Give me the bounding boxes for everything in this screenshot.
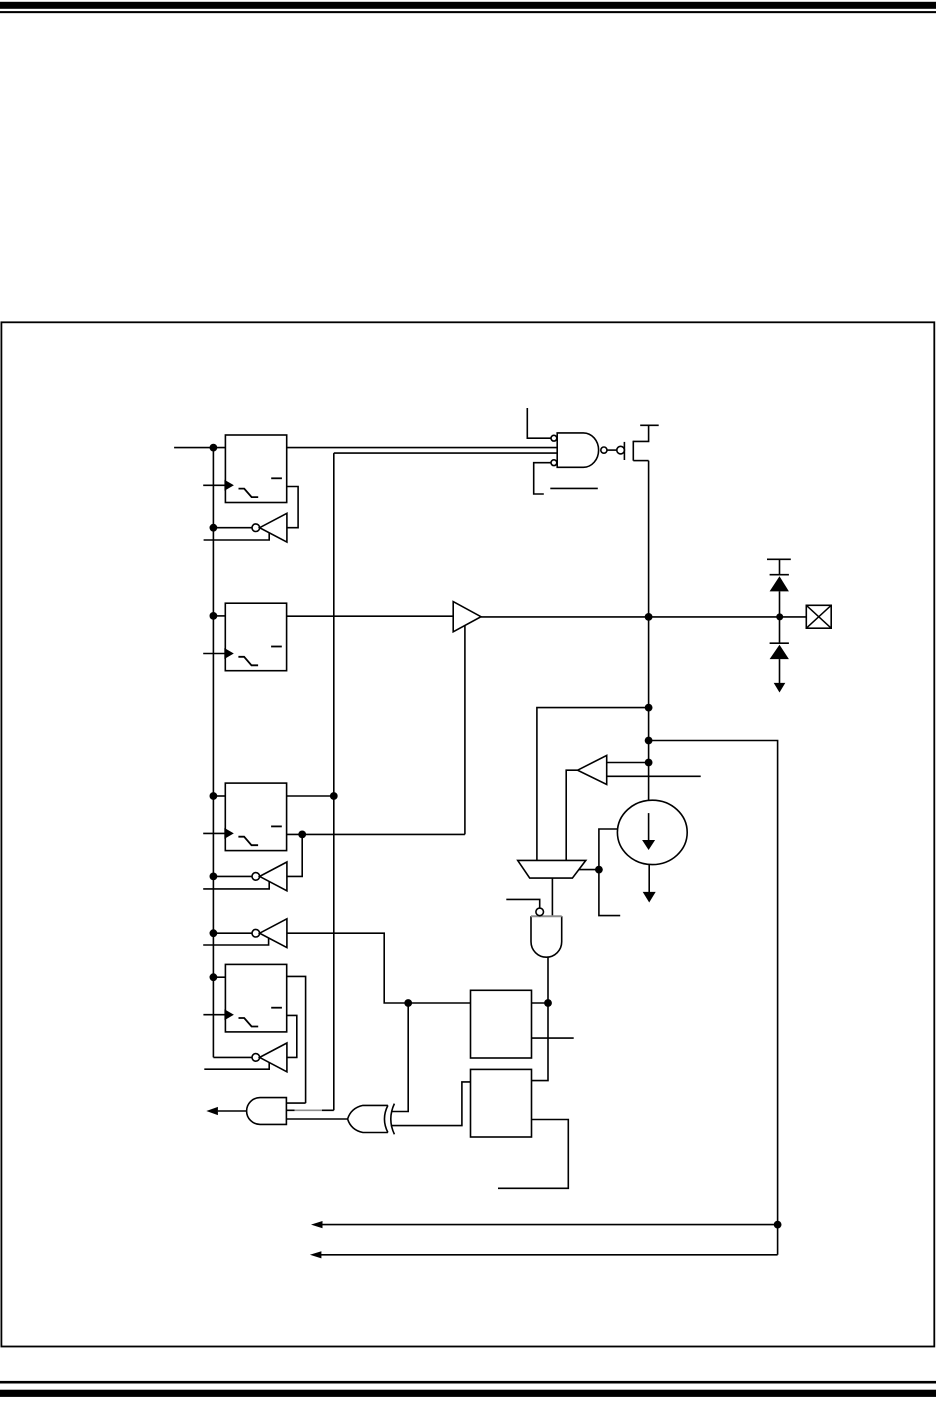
node dot pad net / buffer output <box>645 613 653 621</box>
figure frame <box>1 322 934 1346</box>
buffer U6 <box>453 602 481 632</box>
inverter U2c <box>252 919 287 948</box>
transistor Q1 gate bubble <box>617 446 625 454</box>
node dot on feedback vertical <box>774 1221 782 1229</box>
wire: feedback arrow 2 <box>321 1254 778 1256</box>
bus line 1 (left vertical net) <box>212 448 214 1058</box>
node dot comparator input tap <box>645 759 653 767</box>
bus line 2 (second vertical net) <box>333 453 335 1110</box>
inverter U2 <box>252 513 287 542</box>
wire: D1 anode to pad node <box>779 591 781 643</box>
one-shot block U4 <box>225 783 286 851</box>
one-shot block U1 <box>225 435 286 503</box>
diode D1 <box>770 576 789 591</box>
page header rule <box>0 11 936 13</box>
wire: U7 input 2 stub <box>607 775 701 777</box>
wire: VDD to D1 cathode <box>779 559 781 574</box>
wire: mux side output <box>579 869 599 871</box>
wire: block B right port to stub <box>498 1120 568 1189</box>
wire: block B left port down to XOR input 2 <box>391 1082 471 1126</box>
wire: U10 input 1 from block A input node <box>392 1003 409 1112</box>
U12 clock edge triangle <box>224 1009 234 1020</box>
wire: I1 output to ground arrow <box>648 864 650 893</box>
node dot on bus at U3 input <box>210 612 218 620</box>
wire: U4 output 2 across to buffer tap <box>287 833 465 835</box>
wire: U11 input B from bus line 2 <box>286 1109 333 1111</box>
transistor Q1 gate bar <box>623 442 625 460</box>
and gate U11 (leftward) body <box>247 1098 287 1125</box>
wire: U12 output 1 down to AND gate input A <box>287 976 306 1103</box>
U5 output bubble <box>601 447 607 453</box>
wire: pad net to U7 input 1 <box>607 762 649 764</box>
node dot on bus at U1 input <box>210 444 218 452</box>
wire: U12 output 2 to inverter U2d input <box>287 1015 297 1057</box>
wire: D2 anode to ground <box>779 659 781 684</box>
nand gate U5 body <box>557 433 598 467</box>
node dot U2b output on bus <box>210 873 218 881</box>
arrowhead feedback 1 <box>311 1221 323 1228</box>
U9 top edge (light) <box>531 915 562 917</box>
wire: stub below U2b <box>203 882 269 889</box>
mux U8 (trapezoid) <box>518 860 586 878</box>
page footer bar <box>0 1390 936 1397</box>
wire: U11 input A <box>286 1102 305 1104</box>
wire: U1 Q output to NAND U5 input 2 <box>287 447 558 449</box>
wire: block A output <box>532 1002 549 1004</box>
node dot at bus line 2 junction <box>330 792 338 800</box>
U1 clock edge triangle <box>224 480 234 491</box>
nand gate U9 (downward) body <box>531 916 562 957</box>
page header bar <box>0 2 936 9</box>
wire: feedback arrow 1 <box>322 1224 778 1226</box>
node dot on bus at U4 input <box>210 792 218 800</box>
wire: mux bottom port to NAND U9 <box>551 878 553 916</box>
ground arrow below D2 <box>774 683 786 693</box>
wire: bus to one-shot U12 input <box>213 976 225 978</box>
wire: U2c output to bus <box>213 932 252 934</box>
U1 clock stub wire <box>203 484 225 486</box>
wire: pad net branch to feedback vertical <box>649 741 778 1255</box>
wire: bus line 2 to U5 input 3 <box>334 452 557 454</box>
wire: pad node vertical net <box>648 461 650 801</box>
diode D2 cathode bar <box>770 642 789 644</box>
wire: U1 feedback to inverter U2 input <box>287 487 298 528</box>
wire: U9 input 1 stub <box>506 899 539 908</box>
U9 input 1 bubble <box>536 908 544 916</box>
page footer rule <box>0 1381 936 1384</box>
U11 output arrowhead <box>206 1107 218 1115</box>
VDD rail symbol above Q1 <box>640 424 659 426</box>
node dot on block A input net <box>404 999 412 1007</box>
node dot U2 output on bus <box>210 524 218 532</box>
wire: U5 output to Q1 gate <box>607 449 617 451</box>
diode D2 <box>770 645 789 659</box>
node dot mux output / I1 control <box>595 866 603 874</box>
wire: stub below U2d <box>204 1063 269 1070</box>
wire: U5 input 4 stub <box>534 463 551 494</box>
wire: U2b output to bus <box>213 875 252 877</box>
inverter U2b <box>252 862 287 891</box>
current source I1 <box>617 800 687 864</box>
wire: bus to one-shot U3 input <box>213 615 225 617</box>
U5 input 1 bubble <box>551 435 557 441</box>
wire: U7 output down to mux input 2 <box>566 770 577 860</box>
wire: U9 output down to delay block B <box>532 957 549 1080</box>
U4 clock stub wire <box>203 832 225 834</box>
wire: block A side stub <box>532 1037 574 1039</box>
wire: input net to one-shot U1 <box>174 447 225 449</box>
wire: U2 output to bus <box>213 527 252 529</box>
U4 clock edge triangle <box>224 828 234 839</box>
wire: buffer lower-edge tap down to U4 second output <box>464 625 466 834</box>
wire: buffer U6 output to pad node <box>481 616 806 618</box>
comparator U7 <box>578 755 607 784</box>
transistor Q1 drain lead <box>633 460 648 462</box>
wire: U10 output to AND U11 input C <box>286 1118 347 1120</box>
wire: pad net branch to mux input 1 <box>537 708 649 861</box>
delay block A <box>471 990 532 1058</box>
diode D1 cathode bar <box>770 574 789 576</box>
delay block B <box>471 1069 532 1137</box>
wire: U11 input B light segment <box>295 1109 323 1111</box>
node dot on bus at U12 input <box>210 973 218 981</box>
node dot on U4 output 2 <box>298 831 306 839</box>
wire: U4 output 1 to bus line 2 <box>287 795 334 797</box>
U10 input arc 1 <box>384 1105 387 1132</box>
node dot pad net branch 2 <box>645 737 653 745</box>
wire: U2c input node to delay block A input <box>287 933 471 1003</box>
wire: branch down to inverter U2b input <box>287 834 302 876</box>
node dot U9 output at block A output <box>544 999 552 1007</box>
wire: stub below U2c <box>203 938 268 945</box>
wire: stub below U2 <box>204 533 270 540</box>
U10 input arc 2 <box>391 1104 395 1135</box>
node dot at pad <box>776 613 783 620</box>
inverter U2d <box>252 1043 287 1072</box>
U3 clock edge triangle <box>224 648 234 659</box>
xor gate U10 body <box>348 1105 388 1132</box>
signal name overbar <box>550 487 598 489</box>
U5 input 4 bubble <box>551 460 557 466</box>
wire: bus to one-shot U4 input <box>213 795 225 797</box>
VDD rail symbol above clamp diode D1 <box>767 558 791 560</box>
wire: U2d output to bus bottom <box>213 1056 252 1058</box>
pad symbol (crossed square) <box>806 605 831 628</box>
transistor Q1 source lead <box>633 425 648 441</box>
arrowhead feedback 2 <box>310 1251 322 1258</box>
U3 clock stub wire <box>203 653 225 655</box>
wire: I1 control from mux output node <box>599 829 620 916</box>
transistor Q1 channel bar <box>632 441 634 461</box>
U12 clock stub wire <box>203 1014 225 1016</box>
wire: U3 output to buffer U6 <box>287 615 454 617</box>
wire: U11 output <box>218 1110 247 1112</box>
one-shot block U12 <box>225 964 286 1032</box>
wire: U5 input 1 stub <box>527 408 551 438</box>
one-shot block U3 <box>225 603 286 671</box>
node dot pad net branch 1 <box>645 704 653 712</box>
ground arrow below I1 <box>643 892 656 903</box>
node dot U2c output on bus <box>210 929 218 937</box>
